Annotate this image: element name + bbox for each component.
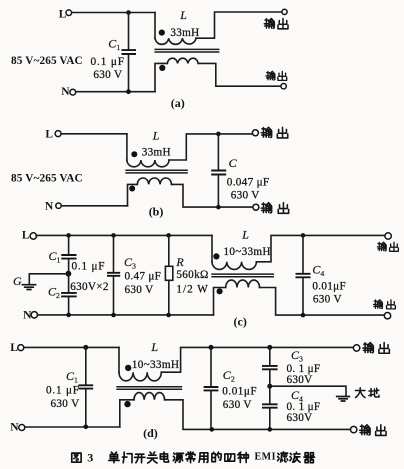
phase dot bottom (a) (159, 65, 165, 71)
wire N rail (d) (25, 426, 120, 428)
capacitor C4 (c) (296, 235, 311, 315)
wire N rail (a) (76, 91, 155, 93)
resistor R (c) (165, 235, 172, 315)
phase dot top (c) (213, 253, 219, 259)
wire to earth (d) (270, 386, 346, 395)
junction C bottom (b) (216, 205, 221, 210)
svg-text:(c): (c) (234, 315, 247, 329)
svg-text:0.01μF: 0.01μF (222, 385, 257, 397)
terminal output top (a) (282, 9, 287, 14)
choke L top winding (b) (127, 134, 252, 167)
svg-text:3: 3 (87, 451, 93, 465)
junction C3 top (c) (111, 233, 116, 238)
phase dot bottom (c) (217, 288, 223, 294)
svg-text:L: L (22, 229, 30, 241)
terminal output bottom (a) (281, 84, 286, 89)
junction C1 bottom (a) (126, 89, 131, 94)
svg-text:N: N (10, 422, 19, 434)
junction C1 top (a) (126, 10, 131, 15)
phase dot bottom (b) (129, 186, 135, 192)
svg-text:630V: 630V (287, 412, 313, 424)
label dadi (d) (355, 388, 379, 398)
caption lv (278, 452, 288, 462)
svg-text:L: L (45, 128, 53, 140)
svg-text:630 V: 630 V (125, 284, 154, 296)
capacitor C (b) (211, 134, 226, 207)
svg-text:R: R (175, 255, 184, 269)
earth ground symbol (d) (336, 397, 350, 402)
svg-text:33mH: 33mH (142, 146, 171, 158)
terminal N (a) (70, 89, 76, 95)
svg-text:(a): (a) (171, 96, 185, 110)
label shuchu bottom (c) (374, 300, 396, 309)
svg-text:85 V~265 VAC: 85 V~265 VAC (11, 172, 83, 184)
choke core (b) (125, 170, 187, 173)
svg-text:G: G (13, 274, 22, 288)
terminal output bottom (c) (384, 313, 390, 319)
svg-text:L: L (59, 8, 67, 20)
svg-text:10~33mH: 10~33mH (224, 246, 271, 258)
capacitor C2 (d) (204, 347, 219, 429)
terminal output top (b) (252, 130, 258, 136)
choke L top winding (c) (212, 235, 385, 269)
svg-text:630 V: 630 V (231, 190, 260, 202)
svg-text:L: L (241, 228, 249, 242)
terminal N (c) (31, 312, 37, 318)
capacitor C1 (c) (61, 235, 76, 273)
label shuchu top (c) (377, 242, 398, 251)
capacitor C3 (d) (262, 347, 278, 386)
junction C4 top (c) (301, 233, 306, 238)
junction C2 bottom (c) (66, 313, 71, 318)
junction C1 bottom (d) (84, 425, 89, 430)
terminal output bottom (b) (253, 204, 259, 210)
label shuchu bottom (b) (261, 203, 288, 214)
svg-text:C1: C1 (66, 369, 78, 385)
choke L bottom winding (b) (128, 178, 254, 207)
wire L top rail (c) (36, 234, 212, 236)
capacitor C1 (d) (78, 347, 93, 426)
svg-text:0.1 μF: 0.1 μF (72, 260, 106, 272)
svg-text:0.1 μF: 0.1 μF (46, 385, 80, 397)
terminal L (d) (18, 345, 24, 351)
caption yuan (173, 453, 183, 462)
svg-text:N: N (45, 200, 54, 212)
svg-text:0.047 μF: 0.047 μF (227, 176, 270, 188)
junction C1 top (d) (83, 345, 88, 350)
svg-text:630V×2: 630V×2 (70, 281, 109, 293)
svg-text:EMI: EMI (255, 452, 277, 463)
wire L top rail (d) (24, 346, 119, 348)
phase dot top (a) (159, 29, 165, 35)
caption yong (199, 453, 208, 463)
label shuchu top (a) (264, 19, 288, 29)
caption kai (135, 454, 145, 463)
phase dot bottom (d) (124, 401, 130, 407)
svg-text:C: C (229, 156, 238, 170)
junction mid C3C4 (d) (267, 384, 272, 389)
choke L bottom winding (d) (120, 393, 351, 430)
junction mid C1C2 (c) (66, 271, 72, 277)
wire N rail (c) (37, 314, 213, 316)
wire L top rail (b) (61, 133, 127, 135)
caption tu (72, 453, 81, 462)
caption dan (109, 452, 119, 463)
label shuchu bottom (a) (266, 71, 287, 80)
svg-text:1/2 W: 1/2 W (176, 284, 208, 296)
junction R top (c) (166, 233, 171, 238)
label shuchu bottom (d) (360, 425, 386, 436)
svg-text:C1: C1 (49, 249, 61, 265)
junction C4 bottom (c) (301, 313, 306, 318)
label shuchu top (b) (261, 127, 287, 138)
capacitor C2 (c) (61, 274, 77, 315)
choke core (c) (211, 274, 274, 277)
svg-text:630 V: 630 V (51, 398, 80, 410)
caption bo (290, 452, 300, 462)
svg-text:560kΩ: 560kΩ (176, 269, 208, 281)
svg-text:C2: C2 (223, 368, 235, 384)
choke L bottom winding (a) (155, 58, 281, 91)
svg-text:33mH: 33mH (170, 27, 199, 39)
svg-text:C1: C1 (108, 36, 120, 52)
svg-text:630 V: 630 V (93, 69, 122, 81)
caption si (225, 454, 235, 461)
junction C3 top (d) (267, 345, 272, 350)
svg-text:0.01μF: 0.01μF (312, 280, 346, 292)
phase dot top (b) (131, 151, 137, 157)
ground G symbol (c) (22, 285, 37, 290)
svg-text:N: N (61, 86, 70, 98)
caption guan (147, 452, 157, 463)
svg-text:630 V: 630 V (313, 293, 342, 305)
junction C1 top (c) (66, 233, 71, 238)
svg-text:L: L (152, 129, 160, 143)
junction R bottom (c) (166, 313, 171, 318)
wire to ground G (c) (29, 274, 68, 284)
phase dot top (d) (125, 365, 131, 371)
caption dian2 (160, 452, 168, 462)
svg-text:C3: C3 (124, 255, 136, 271)
svg-text:(d): (d) (143, 426, 158, 440)
choke L top winding (d) (119, 347, 353, 380)
caption pian (122, 452, 132, 463)
terminal N (b) (56, 203, 61, 208)
choke L bottom winding (c) (214, 280, 386, 315)
junction C top (b) (216, 132, 221, 137)
terminal L (c) (30, 233, 36, 239)
junction C4 bottom (d) (268, 427, 273, 432)
caption zhong (238, 452, 249, 462)
svg-text:C2: C2 (48, 285, 60, 301)
label shuchu top (d) (363, 343, 389, 354)
wire N rail (b) (61, 205, 127, 207)
wire L top rail (a) (72, 12, 155, 14)
caption de (212, 452, 221, 462)
svg-text:L: L (150, 340, 158, 354)
capacitor C3 (c) (107, 235, 120, 315)
junction C2 top (d) (209, 345, 214, 350)
svg-text:C4: C4 (312, 263, 324, 279)
terminal N (d) (19, 425, 25, 431)
choke L top winding (a) (155, 12, 282, 44)
terminal L (b) (55, 131, 61, 137)
svg-text:0. 1 μF: 0. 1 μF (287, 363, 321, 375)
choke core (a) (154, 49, 219, 52)
capacitor C1 (a) (122, 13, 137, 92)
junction C2 bottom (d) (210, 427, 215, 432)
caption chang (186, 452, 195, 463)
svg-text:10~33mH: 10~33mH (132, 359, 179, 371)
choke core (d) (116, 387, 182, 390)
terminal output bottom (d) (351, 426, 357, 432)
svg-text:630V: 630V (287, 374, 313, 386)
junction C3 bottom (c) (111, 313, 116, 318)
svg-text:0.47 μF: 0.47 μF (125, 271, 162, 283)
svg-text:630 V: 630 V (223, 399, 252, 411)
caption qi (304, 453, 315, 463)
svg-text:L: L (179, 8, 187, 22)
svg-text:(b): (b) (149, 204, 164, 218)
svg-text:85 V~265 VAC: 85 V~265 VAC (11, 55, 83, 67)
capacitor C4 (d) (262, 386, 278, 429)
terminal L (a) (66, 10, 72, 16)
terminal output top (d) (353, 345, 359, 351)
svg-text:C3: C3 (291, 348, 303, 364)
svg-text:0.1 μF: 0.1 μF (91, 56, 125, 68)
terminal output top (c) (385, 233, 391, 239)
